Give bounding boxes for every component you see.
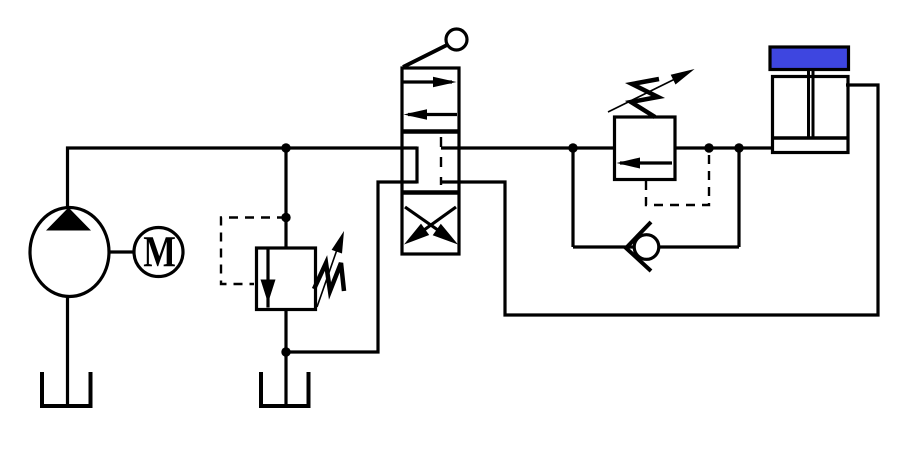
- relief valve V1 spring: [314, 263, 344, 291]
- pilot line (dashed) relief valve: [221, 218, 286, 285]
- wire: bypass bottom left: [573, 245, 634, 248]
- wire: valve B port to cylinder rod side: [441, 85, 878, 315]
- wire: bypass left leg: [571, 148, 574, 247]
- DV1 position1 arrow left: [408, 113, 457, 116]
- cylinder piston: [774, 136, 847, 140]
- check valve CV1 ball: [634, 235, 659, 260]
- node: return junction: [281, 347, 290, 356]
- wire: valve to right valve: [441, 146, 614, 149]
- DV1 bottom X arrow 1: [405, 207, 440, 232]
- relief valve V1 arrow: [266, 250, 269, 308]
- node: bypass left junction: [568, 143, 577, 152]
- DV1 center U connector: [415, 147, 418, 184]
- wire: to cylinder cap side: [675, 146, 774, 149]
- pump P1: [30, 208, 109, 297]
- relief valve V1 body: [257, 248, 316, 310]
- directional valve DV1 outer box: [402, 68, 459, 254]
- V2 pilot line (dashed): [646, 150, 709, 205]
- wire: bypass bottom right: [659, 245, 739, 248]
- DV1 divider top: [402, 129, 459, 134]
- relief valve V1 adjust arrow: [317, 241, 340, 307]
- DV1 lever roller: [446, 29, 467, 50]
- cylinder CYL1 body: [773, 77, 849, 153]
- motor M1 circle: [134, 228, 183, 277]
- wire: relief valve to tank: [284, 310, 287, 405]
- DV1 lever: [403, 45, 447, 67]
- wire: pump-motor link: [110, 250, 134, 253]
- node: pilot tap: [281, 213, 290, 222]
- tank T2: [261, 372, 309, 406]
- DV1 bottom X arrow 2: [424, 207, 456, 230]
- wire: valve return path: [286, 182, 417, 352]
- motor M1 label: [144, 237, 175, 266]
- load block (blue): [770, 47, 849, 70]
- wire: pump to tank: [66, 297, 69, 404]
- wire: bypass right leg: [737, 148, 740, 247]
- DV1 center dashed spool line: [440, 137, 442, 185]
- wire: relief branch down: [284, 148, 287, 249]
- check valve CV1 seat: [626, 222, 651, 271]
- node: junction main/relief: [281, 143, 290, 152]
- node: bypass right junction: [734, 143, 743, 152]
- DV1 position1 arrow right: [403, 80, 452, 83]
- V2 adjust arrow: [608, 78, 678, 113]
- wire: pump riser: [66, 147, 69, 209]
- node: pilot junction: [704, 143, 713, 152]
- wire: main pressure line P: [66, 146, 417, 149]
- tank T1: [42, 372, 91, 406]
- cylinder rod lines: [807, 69, 810, 137]
- counterbalance valve V2 body: [615, 117, 676, 180]
- DV1 divider bottom: [402, 190, 459, 195]
- pump triangle: [46, 208, 91, 231]
- V2 arrow left: [620, 161, 672, 164]
- V2 spring: [631, 79, 659, 117]
